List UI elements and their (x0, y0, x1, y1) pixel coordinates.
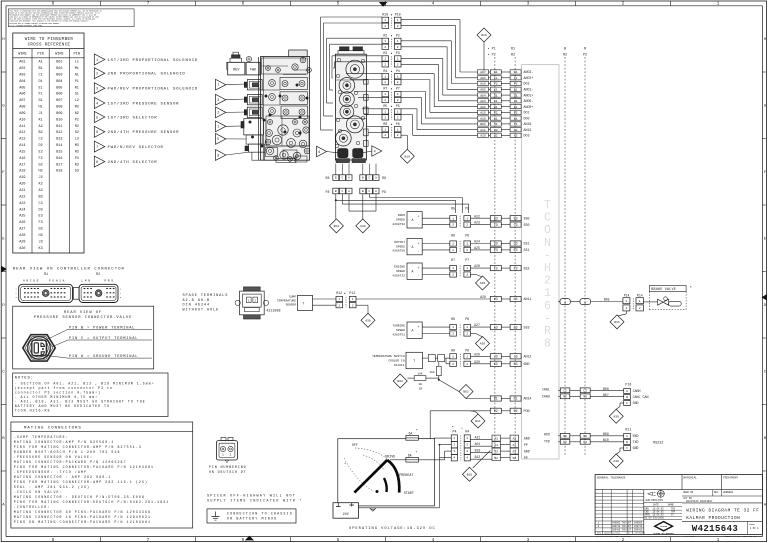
svg-text:1K8: 1K8 (429, 371, 434, 374)
svg-text:SUMP: SUMP (289, 296, 296, 299)
svg-text:1: 1 (452, 326, 454, 329)
junction dot temp switch bus (438, 379, 459, 392)
svg-text:SPEED: SPEED (396, 329, 405, 332)
svg-text:R5: R5 (383, 104, 387, 108)
svg-text:A30: A30 (613, 414, 619, 418)
svg-text:1: 1 (625, 300, 627, 303)
svg-text:A28: A28 (480, 295, 486, 299)
svg-text:A03: A03 (19, 73, 25, 77)
svg-text:MATING CONNECTOR 18 PINS:PACKA: MATING CONNECTOR 18 PINS:PACKARD P/N 120… (14, 515, 151, 519)
coil connector pair R4/P4 (382, 69, 401, 85)
svg-text:PIN: PIN (74, 53, 80, 57)
svg-text:HARNESS: HARNESS (723, 491, 734, 494)
svg-text:-: - (544, 249, 551, 262)
diamond B02 temp switch (393, 374, 407, 388)
svg-text:DIN 46244: DIN 46244 (183, 304, 211, 308)
svg-text:2: 2 (352, 304, 354, 307)
svg-text:S1: S1 (514, 122, 518, 126)
svg-text:D2: D2 (38, 144, 42, 148)
svg-text:L2: L2 (563, 389, 567, 392)
svg-text:3: 3 (217, 99, 219, 103)
svg-text:J3: J3 (494, 355, 498, 359)
operating voltage note (349, 527, 436, 531)
fold marker left (1, 266, 7, 273)
svg-text:ANO2+: ANO2+ (524, 76, 534, 80)
svg-text:B10: B10 (467, 472, 473, 476)
svg-text:TEMPERATURE SWITCH: TEMPERATURE SWITCH (372, 355, 405, 358)
svg-text:E3: E3 (494, 248, 498, 252)
svg-text:S2: S2 (512, 456, 516, 460)
svg-text:H: H (544, 262, 551, 275)
svg-text:F1: F1 (38, 93, 42, 97)
svg-text:J1: J1 (38, 112, 42, 116)
svg-text:A01: A01 (475, 442, 481, 446)
svg-text:2: 2 (452, 224, 454, 227)
svg-text:CANL: CANL (542, 387, 550, 391)
svg-text:2: 2 (453, 444, 455, 447)
svg-text:C3: C3 (494, 223, 498, 227)
svg-text:1: 1 (452, 217, 454, 220)
svg-text:DRIVE: DRIVE (385, 456, 395, 460)
svg-text:1: 1 (466, 267, 468, 270)
svg-text:AN12: AN12 (524, 355, 532, 359)
svg-text:B3: B3 (494, 216, 498, 220)
svg-text:B18: B18 (475, 448, 481, 452)
svg-text:A20: A20 (480, 134, 486, 138)
svg-text:B03: B03 (56, 73, 62, 77)
svg-text:A1: A1 (38, 61, 42, 65)
svg-text:GND: GND (633, 401, 639, 405)
svg-text:A3 CAD NO DWG REF APPROVED: A3 CAD NO DWG REF APPROVED (596, 535, 631, 538)
svg-text:SPEED: SPEED (396, 245, 405, 248)
svg-text:connector P3 section 0,75mm²): connector P3 section 0,75mm²) (15, 390, 101, 394)
svg-text:(except part from connector P2: (except part from connector P2 to (15, 386, 113, 390)
svg-text:2: 2 (397, 99, 399, 102)
svg-text:A22: A22 (474, 214, 480, 218)
svg-text:START: START (404, 492, 414, 496)
svg-text:K2: K2 (38, 183, 42, 187)
svg-text:LMN: LMN (81, 279, 91, 282)
svg-text:MATING CONNECTOR : DEUTSCH P/: MATING CONNECTOR : DEUTSCH P/N:DT06-2S-E… (14, 495, 145, 499)
svg-text:P3: P3 (75, 157, 79, 161)
svg-text:1: 1 (452, 355, 454, 358)
svg-text:P2: P2 (563, 441, 567, 444)
coil connector pair R3/P3 (382, 51, 401, 67)
svg-text:2: 2 (466, 444, 468, 447)
svg-text:RXD: RXD (633, 434, 639, 438)
svg-text:2: 2 (384, 99, 386, 102)
svg-text:2: 2 (384, 81, 386, 84)
svg-text:A30: A30 (19, 247, 25, 251)
svg-text:R2: R2 (383, 33, 387, 37)
svg-text:3: 3 (96, 88, 98, 92)
diamond B16 brake valve (610, 311, 626, 329)
svg-text:6: 6 (318, 151, 320, 155)
svg-text:H2: H2 (514, 134, 518, 138)
svg-text:6: 6 (544, 300, 551, 313)
svg-text:C: C (368, 190, 370, 193)
svg-text:4: 4 (453, 457, 455, 460)
svg-text:A2: A2 (38, 125, 42, 129)
svg-text:1: 1 (384, 75, 386, 78)
resistor labels 10K 1W (417, 372, 422, 390)
pressure sensor pin labels (47, 326, 152, 359)
svg-text:M2: M2 (583, 395, 587, 398)
svg-text:A21: A21 (19, 189, 25, 193)
svg-text:MATING CONNECTOR : AMP 282 0: MATING CONNECTOR : AMP 282 080-1 (14, 475, 112, 479)
controller connector R2 drawing (73, 273, 122, 303)
svg-text:CANL CAN: CANL CAN (633, 395, 649, 399)
svg-text:C: C (626, 447, 628, 450)
svg-text:K3: K3 (494, 362, 498, 366)
svg-text:B: B (362, 190, 364, 193)
engine speed sensor chain R7/P7 (392, 258, 529, 279)
svg-text:2: 2 (397, 46, 399, 49)
svg-text:B: B (335, 177, 337, 180)
diamond A30 below R7/P7 (476, 276, 490, 290)
svg-text:P7: P7 (465, 258, 469, 262)
svg-text:+: + (418, 266, 420, 270)
svg-text:6A: 6A (409, 431, 413, 435)
svg-text:A24: A24 (19, 208, 25, 212)
brake valve symbol (643, 286, 692, 310)
svg-text:C1: C1 (514, 99, 518, 103)
svg-text:•: • (452, 426, 454, 430)
svg-text:R3: R3 (75, 163, 79, 167)
fold marker right (761, 294, 767, 301)
svg-text:PREHEAT: PREHEAT (399, 474, 413, 478)
svg-text:ON DEUTSCH DT: ON DEUTSCH DT (209, 471, 247, 475)
svg-text:P7: P7 (396, 87, 400, 91)
deutsch DT connector drawing (216, 437, 237, 462)
svg-text:ANO1-: ANO1- (524, 88, 534, 92)
svg-text:1: 1 (397, 40, 399, 43)
zone labels top (52, 1, 720, 7)
svg-text:2ND/4TH PRESSURE SENSOR: 2ND/4TH PRESSURE SENSOR (108, 130, 180, 135)
svg-text:*: * (344, 462, 346, 467)
svg-text:A09: A09 (19, 112, 25, 116)
controller TCON-H216-R8 outline box (522, 65, 560, 459)
svg-text:TEMPERATURE: TEMPERATURE (277, 300, 296, 303)
svg-text:C3: C3 (514, 223, 518, 227)
svg-text:A27: A27 (474, 323, 480, 327)
svg-text:A08: A08 (19, 106, 25, 110)
svg-text:1: 1 (384, 40, 386, 43)
svg-text:ANO0+: ANO0+ (524, 105, 534, 109)
svg-text:R12: R12 (336, 291, 342, 295)
svg-text:A10: A10 (19, 118, 25, 122)
svg-text:PIN A = GROUND TERMINAL: PIN A = GROUND TERMINAL (69, 355, 138, 359)
svg-text:C: C (341, 177, 343, 180)
svg-text:T: T (544, 199, 551, 212)
svg-text:A07: A07 (480, 70, 486, 74)
svg-text:2: 2 (466, 333, 468, 336)
svg-text:A30: A30 (474, 360, 480, 364)
left valve assembly (transmission control valve side view) (227, 50, 312, 163)
svg-text:2: 2 (384, 46, 386, 49)
callout 6 2ND/4TH PRESSURE SENSOR (94, 126, 179, 137)
output speed sensor chain R6/P6 (392, 233, 529, 254)
svg-text:-: - (418, 274, 420, 278)
battery wires and chassis ground (358, 444, 451, 512)
connector plane R1/R2 dashed line (511, 47, 515, 460)
svg-text:R2: R2 (514, 409, 518, 413)
svg-text:2: 2 (397, 116, 399, 119)
svg-text:H3: H3 (514, 297, 518, 301)
svg-text:SPICER: SPICER (660, 525, 668, 528)
svg-text:FWD/N/REV SELECTOR: FWD/N/REV SELECTOR (108, 145, 164, 150)
svg-text:REAR VIEW OF: REAR VIEW OF (64, 311, 102, 315)
turbine speed sensor chain R8/P8 (392, 317, 529, 338)
svg-text:P12: P12 (349, 291, 355, 295)
svg-text:24V: 24V (343, 513, 350, 517)
svg-text:SS0: SS0 (524, 223, 530, 227)
svg-text:H3: H3 (38, 234, 42, 238)
svg-text:WIRE: WIRE (55, 53, 64, 57)
svg-text:DO0: DO0 (524, 116, 530, 120)
svg-text:PINS FOR MATING CONNECTOR:PACK: PINS FOR MATING CONNECTOR:PACKARD P/N 12… (14, 465, 154, 469)
svg-text:A10: A10 (480, 116, 486, 120)
svg-text:P3: P3 (396, 51, 400, 55)
svg-text:A: A (412, 245, 414, 249)
svg-text:C1: C1 (38, 73, 42, 77)
svg-text:P14: P14 (624, 294, 630, 298)
svg-text:- ALL OTHER MINIMUM 0,75 mm²: - ALL OTHER MINIMUM 0,75 mm² (15, 395, 98, 399)
diamond A30 RS232 ground (609, 454, 623, 468)
wire staircase connector column to controller pin rows (401, 20, 478, 136)
svg-text:ANO1+: ANO1+ (524, 93, 534, 97)
svg-text:2ND/4TH SELECTOR: 2ND/4TH SELECTOR (108, 160, 158, 165)
svg-text:6: 6 (96, 131, 98, 135)
svg-text:R8: R8 (326, 176, 330, 180)
callout 7 FWD/N/REV SELECTOR (94, 141, 163, 152)
svg-text:P9: P9 (465, 348, 469, 352)
svg-text:TURBINE: TURBINE (392, 325, 405, 328)
svg-text:K1: K1 (494, 116, 498, 120)
svg-text:S1: S1 (494, 122, 498, 126)
svg-text:MATING CONNECTOR:PACKARD P/N 1: MATING CONNECTOR:PACKARD P/N 12065287 (14, 460, 127, 464)
svg-text:A26: A26 (19, 221, 25, 225)
svg-text:PIN B = POWER TERMINAL: PIN B = POWER TERMINAL (69, 326, 135, 330)
svg-text:A20: A20 (19, 183, 25, 187)
svg-text:A30: A30 (480, 342, 486, 346)
svg-text:RE NO 030/0908: RE NO 030/0908 (645, 517, 665, 520)
svg-text:R: R (584, 47, 586, 51)
svg-text:*: * (461, 427, 463, 432)
connector P4/R4 and battery pin rows (451, 426, 529, 461)
svg-text:P4: P4 (396, 69, 400, 73)
svg-text:F3: F3 (514, 266, 518, 270)
svg-text:+: + (418, 325, 420, 329)
svg-text:D3: D3 (514, 242, 518, 246)
svg-text:B16: B16 (481, 33, 487, 37)
svg-text:A24: A24 (474, 240, 480, 244)
svg-text:AN16: AN16 (524, 122, 532, 126)
diamond A30 below turbine sensor (476, 337, 490, 351)
svg-text:D1: D1 (494, 93, 498, 97)
callout 3 FWD/REV PROPORTIONAL SOLENOID (94, 83, 198, 94)
svg-text:B3: B3 (514, 216, 518, 220)
svg-text:D1: D1 (38, 80, 42, 84)
coil connector pair R2/P2 (382, 33, 401, 49)
svg-text:TREATMENT: TREATMENT (723, 476, 738, 479)
svg-text:6A: 6A (408, 454, 412, 458)
callout 4 1ST/3RD PRESSURE SENSOR (94, 98, 179, 109)
svg-text:A16: A16 (480, 82, 486, 86)
svg-text:W4215643 W4204987: W4215643 W4204987 (686, 500, 713, 503)
svg-text:F1: F1 (514, 76, 518, 80)
svg-text:A15: A15 (19, 151, 25, 155)
svg-text:WITHOUT HOLE: WITHOUT HOLE (183, 308, 220, 312)
svg-text:A04: A04 (19, 80, 25, 84)
svg-text:2: 2 (466, 274, 468, 277)
svg-text:C2: C2 (38, 138, 42, 142)
svg-text:A12: A12 (19, 131, 25, 135)
svg-text:4260732: 4260732 (392, 223, 405, 226)
svg-text:C.T.C. LIMITED DISTRIBU- TION: C.T.C. LIMITED DISTRIBU- TION ITEM. (9, 25, 42, 27)
svg-text:REGD NO: REGD NO (683, 491, 694, 494)
svg-text:8: 8 (96, 161, 98, 165)
series resistor 10K 1W (407, 376, 438, 386)
spade terminal connector drawing (235, 287, 269, 319)
svg-text:OFF: OFF (352, 444, 358, 448)
svg-text:A: A (412, 328, 414, 332)
svg-text:FGHJK: FGHJK (49, 279, 66, 282)
svg-text:E2: E2 (514, 111, 518, 115)
wire A26 sump temp to pin H3 AN11 (356, 295, 531, 302)
svg-text:R2: R2 (511, 53, 515, 57)
svg-text:A2.B 80.B: A2.B 80.B (183, 299, 211, 303)
svg-text:R3: R3 (383, 51, 387, 55)
svg-text:G3: G3 (38, 228, 42, 232)
svg-text:E3: E3 (514, 248, 518, 252)
svg-text:R1: R1 (44, 273, 48, 277)
svg-text:BRAKE VALVE: BRAKE VALVE (651, 288, 676, 292)
svg-text:1: 1 (397, 19, 399, 22)
svg-text:N: N (544, 237, 551, 250)
wire R2 PON row (430, 408, 529, 439)
svg-text:P8: P8 (465, 317, 469, 321)
coil connector pair R10/P10 (382, 12, 401, 28)
svg-text:SPICER OFF-HIGHWAY WILL NOT: SPICER OFF-HIGHWAY WILL NOT (207, 494, 296, 498)
svg-text:8: 8 (217, 154, 219, 158)
svg-text:M2: M2 (75, 106, 79, 110)
wire bundle valve coils to connector column (321, 17, 383, 133)
svg-text:N2: N2 (563, 435, 567, 438)
svg-text:EUR-PROJ/DIN: EUR-PROJ/DIN (646, 499, 664, 502)
svg-text:B12: B12 (56, 131, 62, 135)
svg-text:1: 1 (384, 58, 386, 61)
svg-text:1: 1 (639, 300, 641, 303)
svg-text:1: 1 (466, 217, 468, 220)
svg-text:SS2: SS2 (524, 266, 530, 270)
svg-text:E1: E1 (38, 86, 42, 90)
svg-text:A29: A29 (19, 240, 25, 244)
svg-text:N2: N2 (583, 435, 587, 438)
svg-text:G1: G1 (514, 70, 518, 74)
svg-text:MATERIAL: MATERIAL (684, 476, 698, 479)
svg-text:B: B (584, 302, 586, 305)
svg-text:2: 2 (544, 275, 551, 288)
svg-text:K3: K3 (514, 362, 518, 366)
svg-text:B05: B05 (56, 86, 62, 90)
svg-text:A04: A04 (480, 93, 486, 97)
svg-text:A: A (375, 190, 377, 193)
svg-text:F2: F2 (38, 157, 42, 161)
svg-text:E2: E2 (494, 111, 498, 115)
fold marker top (379, 2, 388, 7)
svg-text:D3: D3 (494, 242, 498, 246)
svg-text:B01: B01 (56, 61, 62, 65)
svg-text:1: 1 (352, 298, 354, 301)
svg-text:B09: B09 (603, 432, 609, 436)
svg-text:B: B (362, 177, 364, 180)
svg-text:W4215643: W4215643 (692, 524, 738, 534)
svg-text:ABCDE: ABCDE (23, 279, 40, 282)
svg-text:P8: P8 (326, 190, 330, 194)
svg-text:2: 2 (452, 363, 454, 366)
svg-text:H2: H2 (38, 170, 42, 174)
svg-text:R7: R7 (383, 87, 387, 91)
svg-text:WIRE TO PINNUMBER: WIRE TO PINNUMBER (25, 38, 74, 42)
svg-text:S3: S3 (494, 449, 498, 453)
diamond A30 sump temp (361, 313, 375, 327)
callout 8 2ND/4TH SELECTOR (94, 156, 157, 167)
svg-text:M3: M3 (75, 144, 79, 148)
svg-text:B10: B10 (56, 118, 62, 122)
svg-text:2: 2 (452, 249, 454, 252)
svg-text:B16: B16 (614, 320, 620, 324)
svg-text:E3: E3 (38, 215, 42, 219)
svg-text:2: 2 (384, 134, 386, 137)
svg-text:DATE: DATE (653, 504, 659, 507)
svg-text:F1: F1 (494, 76, 498, 80)
svg-text:FWD/REV PROPORTIONAL SOLENOID: FWD/REV PROPORTIONAL SOLENOID (108, 87, 199, 92)
svg-text:PINS FOR MATING CONNECTOR:AMP: PINS FOR MATING CONNECTOR:AMP 282 110-1 … (14, 480, 148, 484)
svg-text:-CONTROLLER:: -CONTROLLER: (14, 505, 51, 509)
svg-text:R2: R2 (563, 53, 567, 57)
svg-text:K1: K1 (514, 116, 518, 120)
svg-text:B07: B07 (603, 393, 609, 397)
svg-text:SPADE TERMINALS: SPADE TERMINALS (183, 294, 229, 298)
svg-text:A30: A30 (365, 318, 371, 322)
svg-text:B1: B1 (494, 105, 498, 109)
svg-text:N3: N3 (75, 151, 79, 155)
svg-text:PINS FOR MATING CONNECTOR:AMP: PINS FOR MATING CONNECTOR:AMP P/N 827551… (14, 445, 142, 449)
svg-text:B: B (335, 190, 337, 193)
svg-text:MATING CONNECTORS: MATING CONNECTORS (24, 427, 82, 431)
svg-text:A25: A25 (474, 246, 480, 250)
svg-text:R9: R9 (451, 348, 455, 352)
pressure sensor connector drawing (23, 335, 55, 361)
svg-text:10K: 10K (417, 372, 422, 375)
svg-text:A16: A16 (19, 157, 25, 161)
svg-text:SENSOR: SENSOR (286, 304, 297, 307)
svg-text:A29: A29 (474, 352, 480, 356)
svg-text:2: 2 (397, 25, 399, 28)
rear view on controller connector title (13, 267, 125, 271)
svg-text:R1: R1 (75, 86, 79, 90)
svg-text:PIN NUMBERING: PIN NUMBERING (209, 466, 247, 470)
svg-text:R2: R2 (96, 273, 100, 277)
svg-text:7: 7 (96, 146, 98, 150)
svg-text:A27: A27 (19, 228, 25, 232)
diamond B16 top (477, 28, 491, 71)
svg-text:PP: PP (524, 443, 528, 447)
diamond A30 below valve (356, 219, 370, 233)
svg-text:1: 1 (338, 298, 340, 301)
svg-text:4260751: 4260751 (392, 333, 405, 336)
